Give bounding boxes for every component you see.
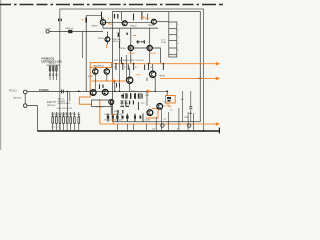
svg-text:IS1555 C616 0.0047: IS1555 C616 0.0047 (105, 119, 124, 121)
orange signal line 1 with arrow (112, 63, 218, 65)
wire v147 (146, 78, 148, 82)
jack PU(L) bottom (23, 104, 27, 108)
wire v147 top (147, 14, 149, 21)
ground bus (37, 130, 219, 132)
svg-text:TL 601: TL 601 (45, 29, 53, 31)
wire mid vertical v112-side (114, 81, 116, 92)
T1 stem (102, 17, 104, 28)
wire phono input (27, 91, 150, 93)
svg-text:k k u k u u: k k u k u u (52, 127, 61, 129)
electrolytic cap 2 (188, 124, 191, 127)
cap right (189, 107, 192, 109)
resistor block R601 (68, 30, 72, 33)
svg-text:R615: R615 (88, 76, 94, 78)
jack PU(L) top (23, 90, 27, 94)
wire to box2 (166, 91, 168, 95)
orange signal line 2 with arrow (160, 77, 217, 79)
inner schematic box (113, 12, 201, 122)
orange stub under box2 (168, 103, 171, 106)
resistor row bottom-left (52, 112, 81, 131)
svg-text:1k: 1k (150, 67, 152, 69)
orange eq box (90, 63, 111, 68)
components under orange line1 (116, 65, 163, 71)
orange dashes top (141, 17, 149, 18)
bus end tick (218, 128, 220, 134)
transistor TR614 (147, 110, 153, 116)
svg-text:TR60: TR60 (108, 24, 114, 26)
wire v119 (119, 28, 121, 91)
resistor under T2 (118, 33, 127, 38)
wire t4-t5 (128, 48, 161, 63)
T4 stems (130, 28, 132, 63)
top mid component marks (115, 14, 145, 44)
orange tick t1 right (108, 18, 111, 24)
svg-text:C610: C610 (161, 42, 167, 44)
svg-text:RY601: RY601 (96, 107, 103, 109)
terminal TP (46, 30, 49, 33)
svg-text:PHONO: PHONO (39, 88, 49, 92)
orange box 2 (166, 96, 176, 104)
input capacitor (62, 90, 64, 94)
T12 stem down (110, 105, 112, 114)
box2 inner marks (167, 97, 171, 99)
wire v155 (154, 78, 156, 92)
svg-text:TR602: TR602 (130, 26, 137, 28)
junction y91 (166, 90, 168, 92)
svg-text:TR605 R62: TR605 R62 (93, 66, 105, 68)
cap on box edge (59, 19, 62, 22)
svg-text:TR603: TR603 (148, 25, 155, 27)
orange labels (108, 18, 168, 108)
transistor TR604 (128, 45, 133, 50)
transistor TR609 (150, 71, 156, 77)
svg-text:R616 1k C608 47u R617 2.2k 100: R616 1k C608 47u R617 2.2k 100 (114, 60, 145, 62)
svg-text:C603 100 4.6 1W: C603 100 4.6 1W (57, 108, 73, 110)
vertical wire v82 (81, 32, 83, 59)
transistor TR606 (93, 69, 98, 74)
svg-text:TR605: TR605 (128, 53, 135, 55)
transistor TR612 (109, 100, 114, 105)
T5 stems (149, 28, 151, 63)
wire v147b (146, 91, 148, 106)
svg-text:(MONO): (MONO) (13, 97, 22, 99)
transistor TR613 (157, 103, 163, 109)
vertical wire v101 resistor (101, 12, 103, 20)
top dash-dot border (0, 4, 223, 6)
vertical wire v86 (85, 32, 87, 92)
wire jack link (24, 94, 26, 104)
svg-text:TR 60: TR 60 (98, 38, 105, 40)
transistor TR603 (151, 19, 156, 24)
orange tick near 134 (133, 35, 136, 37)
switch ladder (169, 12, 177, 57)
svg-text:TR608: TR608 (158, 76, 165, 78)
svg-text:TR 60: TR 60 (120, 48, 127, 50)
transistor TR607 (104, 69, 109, 74)
T6 T7 stems (95, 67, 107, 89)
svg-text:10k: 10k (181, 99, 184, 101)
wire t3 right (156, 21, 169, 23)
orange path down from eq box (79, 67, 91, 104)
mid cluster components (108, 42, 143, 122)
junction dots orange line1 (78, 63, 205, 132)
transistor TR605 (147, 45, 152, 50)
svg-text:PU (L): PU (L) (9, 89, 17, 93)
wire v126 (125, 55, 127, 81)
orange arrow on wire y91 (147, 89, 152, 93)
diode marks bottom mid (107, 116, 142, 119)
svg-text:CARTRIDGE LOAD: CARTRIDGE LOAD (41, 60, 62, 63)
transistor TR602 (122, 21, 127, 26)
wire v67 (66, 92, 68, 115)
orange segment t13 area (146, 109, 158, 118)
svg-text:(MONO): (MONO) (47, 105, 56, 107)
svg-text:PHONO EQ: PHONO EQ (42, 59, 55, 61)
wire terminal (49, 31, 103, 33)
svg-text:C606 100: C606 100 (112, 41, 122, 43)
orange dot left of v86 (82, 19, 84, 21)
wire top chain (103, 21, 152, 23)
junction dots y91 (67, 91, 156, 93)
orange drop x113 (112, 114, 116, 124)
wire t2 base line (103, 27, 158, 29)
transistor TR608 (127, 77, 133, 83)
transistor TR601 (100, 20, 105, 25)
page left edge line (0, 0, 2, 150)
wire t8 stem (129, 67, 131, 91)
svg-text:4.7k: 4.7k (131, 91, 135, 93)
svg-text:R601 1k: R601 1k (66, 28, 75, 30)
wire v182 (181, 91, 183, 122)
orange segment below Tx (106, 45, 108, 49)
cartridge load ladder (47, 65, 60, 80)
wire y91 to t9 (150, 90, 167, 92)
transistor Tx (105, 37, 110, 42)
svg-text:SW 1-2: SW 1-2 (49, 63, 57, 65)
outer schematic box (60, 9, 204, 131)
v69 short (69, 92, 71, 101)
drops from orange bus to ground bus (117, 124, 146, 131)
wire t9 feed (152, 64, 154, 71)
orange drop to bottom bus (99, 99, 101, 124)
component on v86 top (85, 16, 87, 32)
svg-text:D601 D602 IS 1555: D601 D602 IS 1555 (105, 114, 123, 116)
wire jack2 to bus (27, 106, 37, 131)
electrolytic cap 1 (161, 124, 164, 127)
transistor TR611 (102, 89, 108, 95)
resistor v141 (141, 12, 143, 20)
vertical wire v121 (121, 12, 123, 21)
svg-text:1k: 1k (114, 67, 116, 69)
wire y15.5 (86, 15, 101, 17)
resistor v133 (133, 14, 135, 21)
c605 cap marks (137, 41, 145, 43)
relay box (92, 100, 111, 107)
svg-text:TR601: TR601 (91, 25, 98, 27)
svg-text:TR60: TR60 (135, 74, 141, 76)
svg-text:EAR TH: EAR TH (47, 101, 56, 104)
orange arrow mid line y81 (91, 80, 126, 82)
wire v190 (190, 91, 192, 122)
svg-text:10 22 47 10 33 22 1k: 10 22 47 10 33 22 1k (52, 116, 70, 118)
svg-text:TR606: TR606 (150, 53, 157, 55)
svg-text:C 605: C 605 (136, 41, 143, 43)
mid cluster resistor glyphs (118, 94, 142, 114)
Tx stem (106, 32, 108, 45)
svg-text:R622 10k: R622 10k (120, 103, 129, 105)
svg-text:(MONO) R605: (MONO) R605 (58, 103, 72, 105)
orange bottom bus with arrow (100, 123, 217, 125)
right component columns (156, 108, 193, 131)
transistor TR610 (90, 90, 96, 96)
